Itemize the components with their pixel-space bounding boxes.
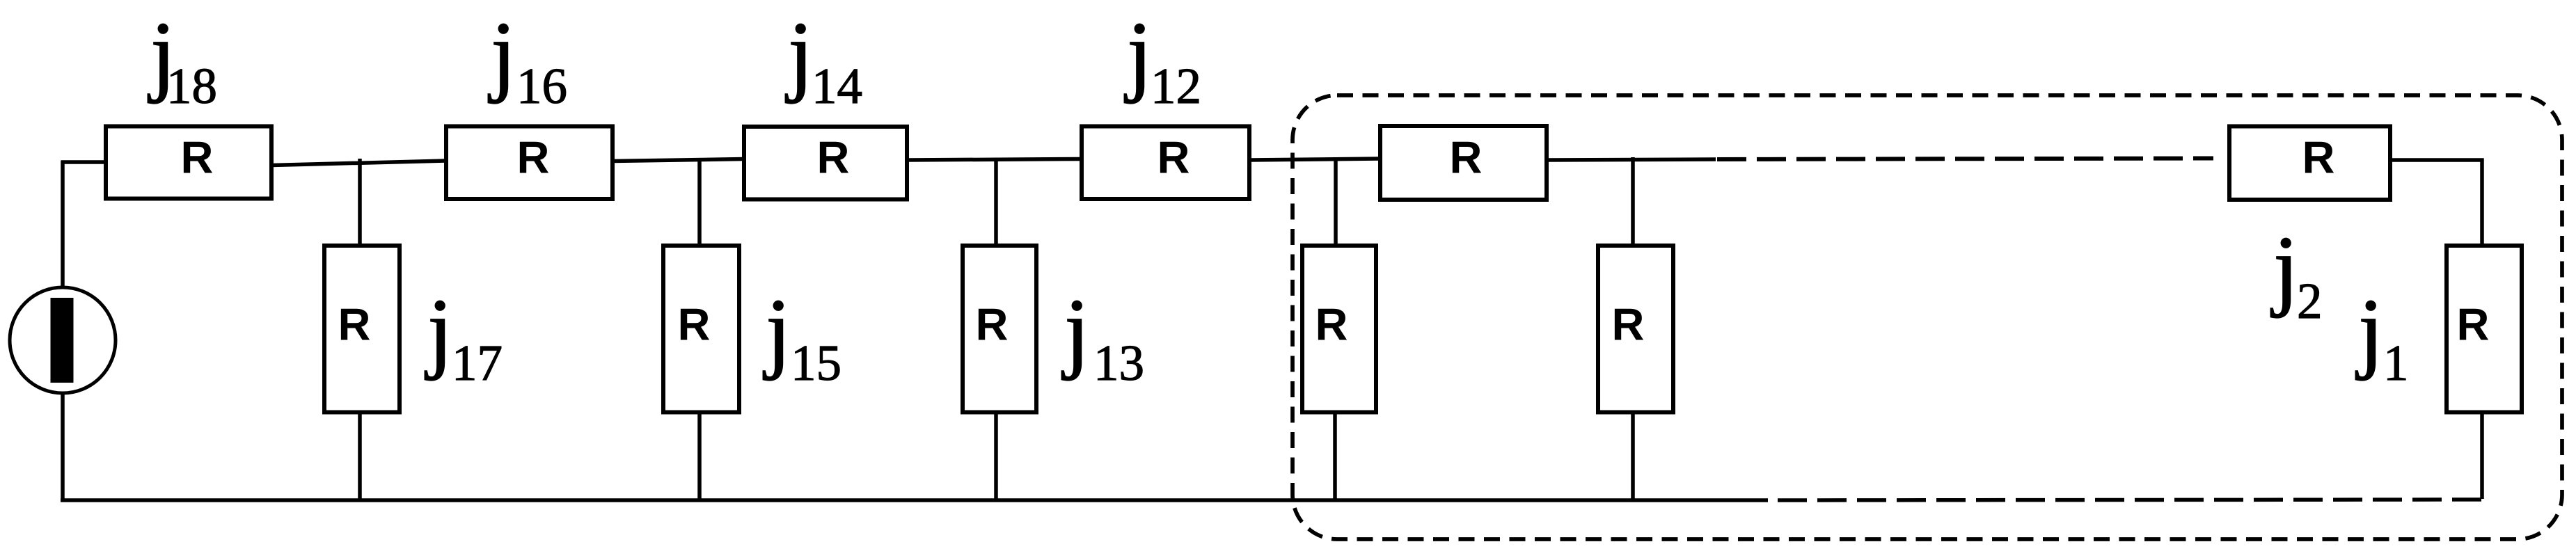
svg-text:R: R <box>1315 299 1348 350</box>
svg-text:j: j <box>763 280 791 381</box>
resistor R (inner shunt 2) <box>1598 246 1673 413</box>
svg-text:j: j <box>2355 280 2383 381</box>
wire: shunt inner 2 to bus <box>1631 413 1635 501</box>
svg-text:R: R <box>2457 299 2490 350</box>
resistor R (far right series) <box>2229 127 2390 200</box>
svg-text:R: R <box>2302 132 2335 183</box>
svg-text:R: R <box>678 299 711 350</box>
resistor R (j1 branch) <box>2447 246 2522 413</box>
svg-text:R: R <box>181 132 214 183</box>
resistor R (j17 branch) <box>324 246 400 413</box>
wire: shunt j17 to bus <box>358 413 362 501</box>
wire: shunt j1 to bus <box>2480 413 2484 500</box>
current source: circle <box>10 287 116 393</box>
wire: R j16 to R j14 through node 15 <box>613 159 744 161</box>
resistor R (j14 branch) <box>744 127 907 200</box>
node stub: j17 node down <box>358 159 362 246</box>
wire: right series R to corner <box>2390 158 2484 162</box>
svg-text:R: R <box>338 299 371 350</box>
label current j18 <box>148 3 217 114</box>
wire: inner series R to node 2 (solid part) <box>1547 159 1716 160</box>
resistor R (j16 branch) <box>446 127 613 200</box>
svg-text:R: R <box>976 299 1009 350</box>
current source: bar <box>51 298 74 383</box>
svg-text:16: 16 <box>516 58 567 114</box>
svg-text:12: 12 <box>1151 58 1201 114</box>
wire: top rail from source to R j18 <box>61 160 108 164</box>
svg-text:j: j <box>2270 218 2298 319</box>
svg-text:j: j <box>1061 280 1089 381</box>
svg-text:15: 15 <box>791 335 841 391</box>
svg-text:R: R <box>517 132 550 183</box>
svg-text:R: R <box>1157 132 1190 183</box>
wire: shunt j15 to bus <box>697 413 702 501</box>
dashed boundary box (subcircuit outline) <box>1293 95 2562 539</box>
label current j13 <box>1061 280 1144 391</box>
resistor R (j13 branch) <box>963 246 1036 413</box>
svg-text:j: j <box>488 3 516 104</box>
label current j14 <box>785 3 862 114</box>
label current j1 <box>2355 280 2409 391</box>
wire: dashed continuation of top rail <box>1717 159 2213 160</box>
wire: shunt j13 to bus <box>994 413 998 501</box>
resistor R (j12 branch) <box>1082 127 1249 200</box>
svg-text:17: 17 <box>452 335 503 391</box>
node stub: inner node 1 down <box>1334 157 1338 246</box>
wire: left branch top (source to rail) <box>61 161 65 290</box>
svg-text:j: j <box>1124 3 1152 104</box>
node stub: inner node 2 down <box>1631 157 1635 246</box>
wire: shunt inner 1 to bus <box>1333 413 1337 501</box>
svg-text:R: R <box>1612 299 1645 350</box>
label current j2 <box>2270 218 2323 329</box>
svg-text:R: R <box>817 132 850 183</box>
svg-text:1: 1 <box>2383 335 2409 391</box>
wire: R j14 to R j12 through node 13 <box>907 159 1082 161</box>
wire: corner down to R j1 <box>2480 159 2484 246</box>
wire: bottom bus solid <box>61 498 1768 502</box>
svg-text:2: 2 <box>2297 273 2323 329</box>
node stub: j15 node down <box>697 158 702 246</box>
label current j12 <box>1124 3 1201 114</box>
svg-text:R: R <box>1450 132 1483 183</box>
svg-text:18: 18 <box>166 58 217 114</box>
svg-text:j: j <box>785 3 813 104</box>
resistor R (inner series) <box>1380 126 1547 200</box>
wire: left branch bottom (source to bus) <box>61 391 65 502</box>
wire: bottom bus dashed continuation <box>1778 500 2482 500</box>
resistor R (j18 branch) <box>106 127 271 199</box>
label current j15 <box>763 280 841 391</box>
label current j16 <box>488 3 567 114</box>
label current j17 <box>425 280 503 391</box>
wire: R j12 to inner series R through node inside box <box>1249 159 1380 160</box>
svg-text:j: j <box>425 280 452 381</box>
node stub: j13 node down <box>994 158 998 246</box>
svg-text:13: 13 <box>1093 335 1144 391</box>
resistor R (j15 branch) <box>663 246 739 413</box>
wire: R j18 to R j16 through node 17 <box>271 161 446 166</box>
svg-text:14: 14 <box>812 58 862 114</box>
resistor R (inner shunt 1) <box>1302 246 1376 413</box>
